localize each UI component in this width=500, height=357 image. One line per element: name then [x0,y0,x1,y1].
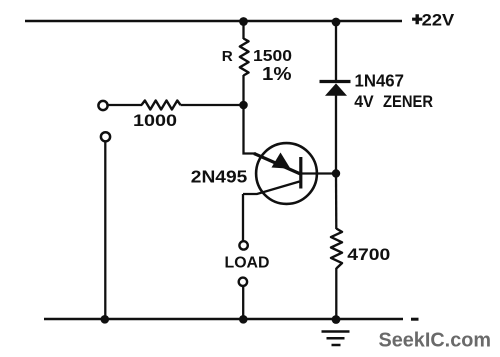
node junction bottom rail left [101,315,110,324]
wire collector to load terminal [242,194,244,241]
wire base junction to resistor 4700 [335,174,338,230]
wire 4700 to bottom rail [335,268,337,319]
node junction R / 1000 / emitter [239,101,248,110]
wire lower-left terminal to bottom rail [104,142,106,320]
transistor collector line [243,182,300,195]
resistor R 1500 1% [240,39,249,76]
wire top rail +22V [25,20,402,23]
wire emitter drop [244,105,257,154]
diode D1 1N467 zener cathode bar [320,80,351,83]
svg-text:1000: 1000 [133,111,177,130]
node junction bottom rail right [332,315,341,324]
wire zener to base junction [335,95,337,174]
wire input terminal to resistor 1000 [108,104,142,106]
node junction top rail / R column [239,17,248,26]
node junction top rail / zener column [332,18,341,27]
svg-text:4700: 4700 [347,245,390,264]
svg-text:SeekIC.com: SeekIC.com [379,329,492,351]
wire top rail to zener [335,21,337,82]
transistor emitter line [254,154,301,175]
svg-text:22V: 22V [422,10,455,29]
terminal input open circle [98,101,107,110]
terminal LOAD bottom open circle [239,278,247,286]
wire from top rail to resistor R [242,21,244,39]
svg-text:2N495: 2N495 [191,167,248,187]
resistor 1000 [142,101,181,110]
node junction bottom rail center [239,315,248,324]
transistor emitter arrowhead [272,153,291,169]
svg-text:1500: 1500 [253,48,292,65]
resistor 4700 [331,229,342,269]
wire LOAD bottom terminal to bottom rail [242,287,244,320]
wire bottom rail [44,318,403,321]
ground symbol [322,332,350,346]
node junction base / right rail [332,169,340,177]
transistor base bar [299,157,302,189]
svg-text:1%: 1% [262,64,292,84]
svg-text:4V: 4V [354,92,374,111]
terminal LOAD top open circle [239,241,247,249]
svg-text:LOAD: LOAD [225,255,270,272]
svg-text:R: R [222,48,233,65]
transistor Q1 2N495 circle [256,143,317,204]
terminal lower-left open circle [101,132,110,141]
label minus terminal [411,318,419,321]
diode D1 anode triangle [325,83,347,95]
wire 1000 to junction [181,104,244,106]
label +22V [412,10,455,29]
svg-text:ZENER: ZENER [383,92,433,111]
wire R bottom to junction [242,75,244,105]
wire base to right rail [301,172,336,174]
svg-text:1N467: 1N467 [355,71,405,91]
